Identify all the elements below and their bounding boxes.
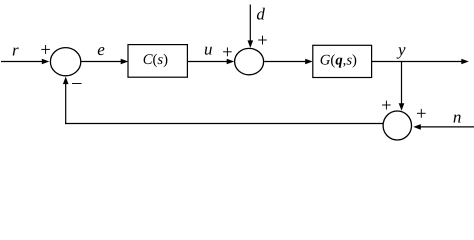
plus sign at summing junction S1 — [41, 45, 50, 54]
wire S2 to G — [264, 61, 306, 63]
svg-text:u: u — [204, 39, 213, 58]
plus sign at S2 top — [258, 36, 267, 45]
svg-text:G(q,s): G(q,s) — [320, 52, 357, 68]
svg-text:n: n — [453, 108, 462, 127]
plus sign at S2 left — [223, 47, 232, 56]
wire d input — [249, 5, 251, 42]
wire n input — [420, 126, 474, 128]
svg-text:e: e — [97, 40, 105, 59]
plus sign at S3 left — [382, 101, 391, 110]
plus sign at S3 right — [417, 109, 426, 118]
wire r input — [1, 61, 43, 63]
wire feedback horizontal — [65, 123, 383, 125]
svg-text:d: d — [256, 5, 265, 24]
wire G to output — [372, 61, 462, 63]
wire feedback vertical — [65, 83, 67, 124]
minus sign at S1 feedback — [72, 83, 82, 85]
summing junction S2 — [235, 48, 264, 74]
block C(s) — [128, 45, 187, 78]
svg-text:r: r — [12, 40, 19, 59]
svg-text:y: y — [396, 40, 406, 59]
svg-text:C(s): C(s) — [143, 52, 168, 68]
summing junction S3 — [383, 111, 411, 140]
wire S1 to C(s) — [81, 61, 121, 63]
summing junction S1 — [50, 48, 80, 76]
wire C(s) to S2 — [188, 61, 228, 63]
wire y branch down — [401, 62, 403, 105]
block G(q,s) — [313, 45, 372, 77]
